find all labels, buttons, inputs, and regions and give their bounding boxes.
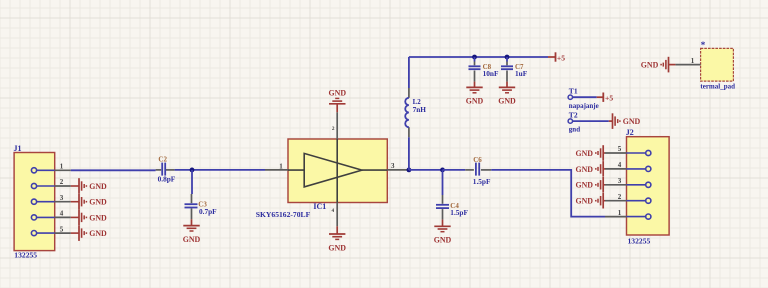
- svg-text:7nH: 7nH: [413, 105, 427, 114]
- svg-text:1uF: 1uF: [515, 69, 528, 78]
- wire C6 to J2.1: [491, 170, 605, 217]
- ground at J1 pin 4: [71, 210, 107, 226]
- wire node A down: [191, 170, 193, 194]
- ground below C4: [434, 220, 452, 245]
- ground at thermal pad: [641, 57, 676, 73]
- svg-text:4: 4: [332, 208, 335, 214]
- power +5 at top rail: [548, 52, 565, 62]
- capacitor C3 0.7pF: [185, 194, 218, 219]
- J2 pin 4: [605, 161, 651, 171]
- ground below C3: [183, 219, 201, 244]
- svg-text:5: 5: [618, 145, 622, 153]
- node B junction: [407, 168, 412, 173]
- ground at J2 pin 3: [575, 177, 605, 193]
- svg-text:GND: GND: [575, 165, 593, 174]
- svg-text:1: 1: [279, 162, 283, 170]
- power +5 at T1: [597, 93, 614, 103]
- svg-text:GND: GND: [498, 97, 516, 106]
- thermal pad: [700, 40, 735, 91]
- wire top rail: [409, 56, 548, 58]
- svg-text:GND: GND: [575, 197, 593, 206]
- svg-text:GND: GND: [89, 229, 107, 238]
- svg-text:C2: C2: [158, 155, 167, 163]
- capacitor C2 0.8pF: [156, 155, 176, 183]
- ground at J1 pin 3: [71, 194, 107, 210]
- J2 pin 3: [605, 177, 651, 187]
- svg-text:3: 3: [391, 162, 395, 170]
- svg-text:C6: C6: [473, 156, 482, 164]
- svg-text:5: 5: [60, 225, 64, 233]
- svg-text:GND: GND: [89, 198, 107, 207]
- svg-text:SKY65162-70LF: SKY65162-70LF: [256, 210, 311, 219]
- test point T2 gnd: [568, 111, 609, 134]
- svg-text:2: 2: [332, 126, 335, 132]
- svg-text:GND: GND: [89, 213, 107, 222]
- svg-text:T2: T2: [569, 111, 578, 120]
- J2 pin 5: [605, 145, 651, 155]
- J1 pin 1: [31, 163, 70, 173]
- IC1 pin 2 (top): [332, 112, 337, 139]
- svg-text:GND: GND: [329, 89, 347, 98]
- node A junction: [190, 168, 195, 173]
- svg-text:2: 2: [618, 193, 622, 201]
- connector J1: [14, 144, 55, 250]
- capacitor C7 1uF: [501, 57, 528, 82]
- ground at J2 pin 5: [575, 145, 605, 161]
- svg-text:132255: 132255: [14, 251, 37, 260]
- svg-text:1.5pF: 1.5pF: [450, 208, 468, 217]
- svg-text:GND: GND: [328, 243, 346, 252]
- svg-text:GND: GND: [641, 61, 659, 70]
- op-amp IC1 SKY65162-70LF: [256, 139, 387, 219]
- IC1 pin 1: [265, 162, 288, 170]
- ground below IC1: [328, 226, 346, 252]
- svg-text:T1: T1: [569, 87, 578, 96]
- node at C7: [505, 55, 510, 60]
- svg-text:*: *: [701, 40, 706, 50]
- svg-text:132255: 132255: [628, 237, 651, 246]
- ground above IC1: [329, 89, 347, 113]
- ground at J1 pin 2: [71, 178, 107, 194]
- J1 pin 3: [31, 194, 70, 204]
- ground at J2 pin 4: [575, 161, 605, 177]
- svg-text:0.8pF: 0.8pF: [158, 174, 176, 183]
- J2 value label 132255: [628, 237, 651, 246]
- svg-text:10nF: 10nF: [483, 69, 499, 78]
- node at C8: [472, 55, 477, 60]
- capacitor C6 1.5pF: [465, 156, 491, 186]
- svg-text:GND: GND: [183, 235, 201, 244]
- inductor L2 7nH: [405, 98, 426, 127]
- ground below C7: [498, 82, 516, 106]
- wire C2 to IC1.1: [175, 169, 265, 171]
- svg-text:termal_pad: termal_pad: [700, 83, 735, 91]
- thermal pad pin 1: [675, 57, 700, 65]
- svg-text:0.7pF: 0.7pF: [199, 207, 217, 216]
- svg-text:1: 1: [60, 163, 64, 171]
- IC1 pin 4 (bottom): [332, 203, 338, 227]
- J2 pin 2: [605, 193, 651, 203]
- svg-text:4: 4: [618, 161, 622, 169]
- J1 pin 2: [31, 178, 70, 188]
- svg-text:GND: GND: [623, 117, 641, 126]
- svg-text:GND: GND: [434, 236, 452, 245]
- test point T1 napajanje: [568, 87, 599, 110]
- connector J2: [626, 128, 669, 235]
- svg-text:GND: GND: [89, 182, 107, 191]
- svg-text:3: 3: [618, 177, 622, 185]
- capacitor C8 10nF: [469, 57, 499, 82]
- J2 pin 1: [605, 209, 651, 219]
- capacitor C4 1.5pF: [436, 170, 468, 220]
- svg-text:J1: J1: [14, 144, 22, 153]
- J1 pin 4: [31, 210, 70, 220]
- svg-text:napajanje: napajanje: [569, 102, 599, 110]
- J1 pin 5: [31, 225, 70, 235]
- svg-text:GND: GND: [466, 97, 484, 106]
- ground below C8: [466, 82, 484, 106]
- svg-text:4: 4: [60, 210, 64, 218]
- IC1 pin 3: [387, 162, 409, 170]
- svg-text:gnd: gnd: [569, 126, 580, 134]
- wire J1.1 to C2: [71, 169, 156, 171]
- ground at J1 pin 5: [71, 225, 107, 241]
- svg-text:1.5pF: 1.5pF: [473, 177, 491, 186]
- ground at J2 pin 2: [575, 193, 605, 209]
- svg-text:+5: +5: [605, 93, 613, 102]
- svg-text:1: 1: [691, 57, 695, 65]
- wire node C to C6: [443, 169, 466, 171]
- svg-text:GND: GND: [575, 149, 593, 158]
- ground at T2: [609, 113, 641, 129]
- svg-text:J2: J2: [626, 128, 634, 137]
- svg-text:2: 2: [60, 178, 64, 186]
- wire node B to node C: [409, 169, 443, 171]
- node C junction: [440, 168, 445, 173]
- svg-text:1: 1: [618, 209, 622, 217]
- svg-text:+5: +5: [557, 54, 565, 63]
- J1 value label 132255: [14, 251, 37, 260]
- svg-text:IC1: IC1: [313, 202, 326, 211]
- wire L2 branch: [408, 57, 410, 170]
- svg-text:3: 3: [60, 194, 64, 202]
- svg-text:GND: GND: [575, 181, 593, 190]
